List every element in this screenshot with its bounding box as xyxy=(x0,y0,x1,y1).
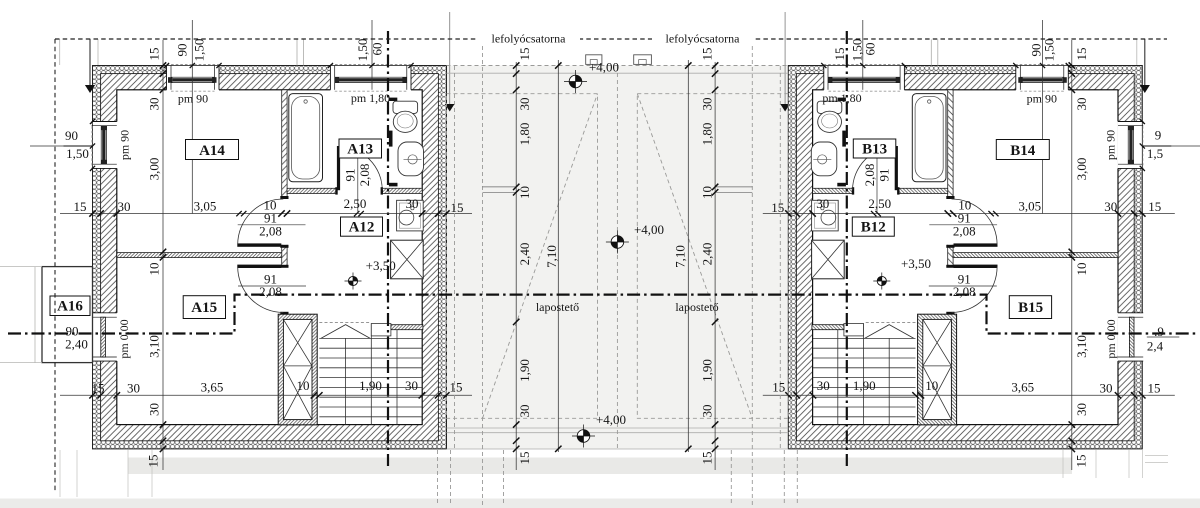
svg-text:1,50: 1,50 xyxy=(66,146,89,161)
svg-text:91: 91 xyxy=(876,169,891,182)
svg-text:2,08: 2,08 xyxy=(862,164,877,187)
texts roof chains xyxy=(517,48,715,465)
svg-text:3,05: 3,05 xyxy=(194,199,217,214)
svg-text:15: 15 xyxy=(74,199,87,214)
svg-text:9: 9 xyxy=(1155,128,1162,143)
texts unit B horizontal chains xyxy=(771,196,1161,396)
terrace A16 label box xyxy=(50,296,90,316)
unit B body (mirrored) xyxy=(763,20,1200,470)
svg-text:2,08: 2,08 xyxy=(953,284,976,299)
svg-text:+4,00: +4,00 xyxy=(589,60,619,75)
svg-text:15: 15 xyxy=(147,48,162,61)
section trace line xyxy=(8,295,1197,334)
svg-text:30: 30 xyxy=(517,98,532,111)
svg-text:+4,00: +4,00 xyxy=(596,412,626,427)
svg-text:B12: B12 xyxy=(861,220,886,236)
svg-text:15: 15 xyxy=(92,381,105,396)
svg-text:pm 90: pm 90 xyxy=(178,92,208,106)
svg-text:1,90: 1,90 xyxy=(359,378,382,393)
svg-text:15: 15 xyxy=(700,48,715,61)
svg-text:60: 60 xyxy=(863,43,878,56)
svg-text:2,4: 2,4 xyxy=(1147,339,1164,354)
svg-text:30: 30 xyxy=(147,98,162,111)
svg-text:2,08: 2,08 xyxy=(953,224,976,239)
svg-text:2,08: 2,08 xyxy=(259,284,282,299)
svg-text:1,90: 1,90 xyxy=(700,359,715,382)
roof dashed edges xyxy=(438,39,798,506)
texts window labels unit A xyxy=(65,39,385,352)
svg-text:91: 91 xyxy=(343,169,358,182)
svg-text:30: 30 xyxy=(147,403,162,416)
faint neighbour lines left xyxy=(0,267,42,363)
svg-text:30: 30 xyxy=(700,405,715,418)
svg-text:30: 30 xyxy=(1104,199,1117,214)
svg-text:15: 15 xyxy=(451,200,464,215)
roof drain boxes xyxy=(586,55,602,65)
section cut arrow left xyxy=(89,39,91,85)
section cut arrow right xyxy=(1144,39,1146,85)
svg-text:15: 15 xyxy=(517,48,532,61)
svg-text:30: 30 xyxy=(405,378,418,393)
svg-text:10: 10 xyxy=(700,186,715,199)
unit A exterior main wall ring xyxy=(101,74,439,441)
svg-text:2,50: 2,50 xyxy=(344,196,367,211)
section cut arrow inner right xyxy=(784,12,786,104)
svg-text:lefolyócsatorna: lefolyócsatorna xyxy=(492,32,567,46)
unit B exterior main wall ring xyxy=(796,74,1134,441)
svg-text:30: 30 xyxy=(1074,98,1089,111)
unit A exterior wall insulation ring xyxy=(93,66,447,449)
svg-text:2,08: 2,08 xyxy=(259,224,282,239)
svg-text:B13: B13 xyxy=(862,142,887,158)
level marker +4,00 bottom xyxy=(572,425,595,448)
svg-text:90: 90 xyxy=(65,128,78,143)
svg-text:15: 15 xyxy=(700,452,715,465)
svg-text:3,00: 3,00 xyxy=(147,158,162,181)
svg-text:10: 10 xyxy=(517,186,532,199)
terrace A16 outline xyxy=(42,267,93,363)
faint stub lines bottom right xyxy=(1145,455,1168,457)
svg-text:2,40: 2,40 xyxy=(517,243,532,266)
svg-text:15: 15 xyxy=(772,380,785,395)
svg-text:15: 15 xyxy=(1073,455,1088,468)
svg-text:15: 15 xyxy=(450,380,463,395)
svg-text:lefolyócsatorna: lefolyócsatorna xyxy=(666,32,741,46)
bottom page band xyxy=(0,499,1200,508)
svg-text:1,80: 1,80 xyxy=(700,123,715,146)
svg-text:pm 0,00: pm 0,00 xyxy=(117,319,131,358)
svg-text:30: 30 xyxy=(1074,403,1089,416)
faint corner stubs top xyxy=(97,39,99,65)
svg-text:3,65: 3,65 xyxy=(1011,380,1034,395)
svg-text:15: 15 xyxy=(832,48,847,61)
svg-text:1,90: 1,90 xyxy=(517,359,532,382)
svg-text:30: 30 xyxy=(127,381,140,396)
svg-text:+3,50: +3,50 xyxy=(366,258,396,273)
rain pipes at top walls xyxy=(297,40,938,66)
svg-text:10: 10 xyxy=(297,378,310,393)
level marker +4,00 centre xyxy=(606,231,629,254)
svg-text:10: 10 xyxy=(925,378,938,393)
svg-text:15: 15 xyxy=(771,200,784,215)
unit A interior floor area xyxy=(117,90,422,425)
svg-text:60: 60 xyxy=(370,43,385,56)
unit B exterior wall insulation ring xyxy=(788,66,1142,449)
svg-text:7,10: 7,10 xyxy=(544,245,559,268)
svg-text:10: 10 xyxy=(1074,263,1089,276)
texts door labels xyxy=(259,164,976,299)
roof dimension chains xyxy=(515,62,517,470)
svg-text:A13: A13 xyxy=(347,142,373,158)
svg-text:lapostető: lapostető xyxy=(675,300,718,314)
svg-text:1,50: 1,50 xyxy=(1042,39,1057,62)
svg-text:+3,50: +3,50 xyxy=(901,256,931,271)
svg-text:15: 15 xyxy=(1074,48,1089,61)
svg-text:2,50: 2,50 xyxy=(868,196,891,211)
texts level values xyxy=(366,60,931,428)
svg-text:30: 30 xyxy=(1100,381,1113,396)
svg-text:pm 1,80: pm 1,80 xyxy=(822,91,861,105)
svg-text:3,00: 3,00 xyxy=(1074,158,1089,181)
roof gray construction lines xyxy=(447,73,789,449)
roof chain extension stubs xyxy=(483,187,753,192)
svg-text:A12: A12 xyxy=(349,220,375,236)
svg-text:30: 30 xyxy=(118,199,131,214)
svg-text:1,90: 1,90 xyxy=(853,378,876,393)
svg-text:pm 90: pm 90 xyxy=(118,130,132,160)
svg-text:30: 30 xyxy=(406,196,419,211)
svg-text:3,65: 3,65 xyxy=(201,380,224,395)
lower faded band xyxy=(128,458,1072,475)
faint stub lines below buildings xyxy=(60,450,1143,497)
svg-text:15: 15 xyxy=(1148,199,1161,214)
section cut arrow inner left xyxy=(449,12,451,104)
svg-text:B15: B15 xyxy=(1018,300,1043,316)
svg-text:pm 0,00: pm 0,00 xyxy=(1104,319,1118,358)
svg-text:A16: A16 xyxy=(57,299,83,315)
svg-text:1,80: 1,80 xyxy=(517,123,532,146)
svg-text:pm 90: pm 90 xyxy=(1027,92,1057,106)
unit A body xyxy=(30,20,472,470)
svg-text:lapostető: lapostető xyxy=(536,300,579,314)
svg-text:15: 15 xyxy=(146,455,161,468)
svg-text:30: 30 xyxy=(700,98,715,111)
svg-text:15: 15 xyxy=(517,452,532,465)
texts roof names xyxy=(492,32,741,315)
flat roof zone tint xyxy=(447,66,789,449)
svg-text:2,08: 2,08 xyxy=(357,164,372,187)
svg-text:2,40: 2,40 xyxy=(65,337,88,352)
svg-text:30: 30 xyxy=(517,405,532,418)
svg-text:A15: A15 xyxy=(191,300,217,316)
svg-text:3,05: 3,05 xyxy=(1018,199,1041,214)
svg-text:pm 1,80: pm 1,80 xyxy=(351,91,390,105)
texts pm sill heights xyxy=(117,91,1118,359)
svg-text:30: 30 xyxy=(816,196,829,211)
texts unit B vertical chain xyxy=(1073,48,1089,468)
unit B interior floor area xyxy=(813,90,1118,425)
texts unit A vertical chain xyxy=(146,48,162,468)
svg-text:A14: A14 xyxy=(199,143,225,159)
svg-text:1,5: 1,5 xyxy=(1147,146,1163,161)
svg-text:3,10: 3,10 xyxy=(147,335,162,358)
texts room labels xyxy=(57,142,1043,317)
svg-text:90: 90 xyxy=(175,44,190,57)
texts window labels unit B xyxy=(832,39,1164,354)
white gaps for gutter labels xyxy=(478,31,580,45)
svg-text:7,10: 7,10 xyxy=(673,245,688,268)
svg-text:1,50: 1,50 xyxy=(192,39,207,62)
svg-text:30: 30 xyxy=(817,378,830,393)
svg-text:+4,00: +4,00 xyxy=(634,222,664,237)
svg-text:3,10: 3,10 xyxy=(1074,335,1089,358)
svg-text:1,50: 1,50 xyxy=(355,39,370,62)
svg-text:2,40: 2,40 xyxy=(700,243,715,266)
eaves dashed outline xyxy=(55,38,1167,40)
svg-text:B14: B14 xyxy=(1010,143,1036,159)
svg-text:pm 90: pm 90 xyxy=(1103,130,1117,160)
svg-text:10: 10 xyxy=(147,263,162,276)
texts unit A horizontal chains xyxy=(74,196,464,396)
svg-text:15: 15 xyxy=(1148,381,1161,396)
svg-text:.9: .9 xyxy=(1154,324,1164,339)
level marker +4,00 top xyxy=(564,70,587,93)
